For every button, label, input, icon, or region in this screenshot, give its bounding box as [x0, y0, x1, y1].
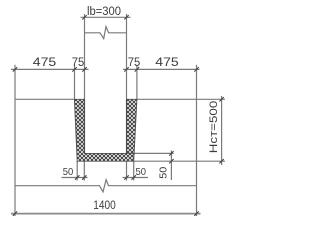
- tick 50R b: [132, 175, 136, 179]
- dim line lb=300: [81, 16, 131, 18]
- column left edge: [84, 14, 86, 153]
- extension line right edge: [196, 65, 198, 100]
- tick Hct top: [219, 97, 223, 101]
- svg-text:Нст=500: Нст=500: [208, 101, 220, 154]
- tick lb left: [82, 15, 86, 19]
- Hct dim line: [221, 96, 223, 165]
- foundation left side + 1400 extension: [14, 99, 16, 216]
- tick 50L b: [82, 175, 86, 179]
- svg-text:75: 75: [72, 55, 85, 69]
- tick 50R a: [124, 175, 128, 179]
- column right edge: [126, 14, 128, 153]
- mid dim line right piece (75,475): [123, 68, 200, 70]
- 50R extension a: [126, 161, 128, 180]
- svg-text:475: 475: [155, 55, 179, 69]
- foundation bottom with break: [15, 180, 197, 192]
- column bottom extension: [127, 152, 174, 154]
- break line column: [85, 27, 127, 39]
- grout joint hatch: [74, 99, 136, 161]
- 1400 dim line: [11, 213, 201, 215]
- dimension ticks: [13, 15, 224, 216]
- foundation right side + 1400 extension: [196, 99, 198, 216]
- svg-text:50: 50: [158, 167, 170, 179]
- tick mid 75/475: [135, 67, 139, 71]
- svg-text:1400: 1400: [93, 200, 116, 212]
- tick mid right edge: [194, 67, 198, 71]
- svg-text:475: 475: [33, 55, 57, 69]
- tick v50 top: [169, 151, 173, 155]
- 50R dim line: [123, 177, 149, 179]
- extension line left edge: [14, 65, 16, 100]
- 50L extension b: [83, 161, 85, 180]
- extension line socket left: [74, 65, 76, 100]
- svg-text:50: 50: [136, 166, 147, 178]
- svg-text:50: 50: [63, 166, 74, 178]
- 50R extension b: [133, 161, 135, 180]
- foundation top left: [15, 98, 74, 100]
- tick 50L a: [75, 175, 79, 179]
- tick lb right: [124, 15, 128, 19]
- extension line socket right: [136, 65, 138, 100]
- socket floor extension: [134, 160, 225, 162]
- tick mid col/75: [124, 67, 128, 71]
- tick 1400 right: [194, 211, 198, 215]
- tick 1400 left: [13, 211, 17, 215]
- tick mid 75/col: [82, 67, 86, 71]
- mid dim line left piece (475,75): [11, 68, 89, 70]
- tick Hct bottom: [219, 159, 223, 163]
- 50L extension a: [76, 161, 78, 180]
- tick mid left edge: [13, 67, 17, 71]
- tick mid 475/75: [72, 67, 76, 71]
- 50L dim line: [62, 177, 88, 179]
- foundation top right + Hct extension: [137, 98, 225, 100]
- v50 dim line: [170, 151, 172, 181]
- tick v50 bottom: [169, 159, 173, 163]
- svg-text:lb=300: lb=300: [87, 6, 121, 18]
- svg-text:75: 75: [128, 55, 141, 69]
